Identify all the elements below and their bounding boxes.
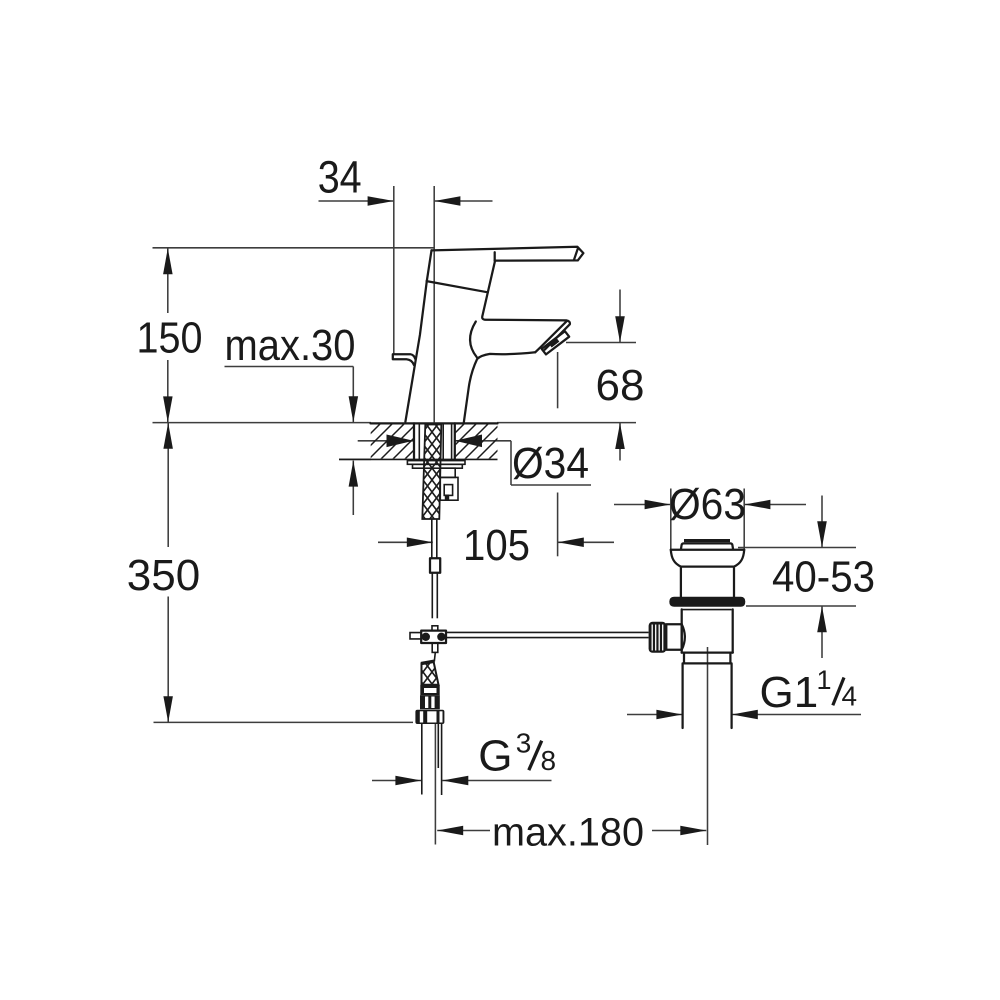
- svg-text:Ø34: Ø34: [512, 439, 589, 488]
- base mounting tab: [393, 354, 415, 365]
- linkage clamp bottom stub: [432, 643, 438, 652]
- dimension G3/8 arrows: [372, 780, 421, 782]
- top extension line (150 upper datum): [153, 247, 434, 249]
- drain neck: [680, 567, 682, 597]
- deck bottom line: [339, 458, 498, 460]
- drain plug cap: [684, 539, 730, 542]
- svg-text:3: 3: [516, 728, 532, 759]
- wire to hose: [434, 652, 435, 661]
- hose crimp collar: [420, 685, 439, 695]
- faucet neck right edge and spout top: [482, 261, 570, 350]
- hose tails: [421, 724, 423, 795]
- dimension 34 arrows: [319, 200, 394, 202]
- horizontal actuating rod: [446, 631, 649, 633]
- svg-text:G1: G1: [760, 668, 819, 717]
- deck top line: [371, 422, 498, 424]
- mounting flange and nut: [407, 461, 465, 465]
- svg-text:40-53: 40-53: [772, 552, 875, 601]
- max.30 lower arrow: [339, 458, 371, 460]
- groove ring: [683, 653, 685, 664]
- spout bottom edge and lower body right edge: [464, 352, 535, 422]
- svg-text:G: G: [478, 732, 512, 781]
- linkage clamp left stub: [410, 633, 421, 639]
- svg-text:350: 350: [127, 551, 200, 600]
- connection nut G3/8: [415, 710, 444, 724]
- deck hole left wall: [413, 423, 415, 459]
- pull rod upper: [431, 520, 433, 559]
- dimension 34 extension line right / pull-rod centerline: [433, 186, 435, 422]
- hex nipple: [420, 695, 440, 709]
- svg-text:34: 34: [318, 152, 362, 203]
- rod housing: [666, 624, 681, 650]
- svg-text:105: 105: [463, 521, 530, 570]
- dimension 150 vertical line: [167, 248, 169, 313]
- linkage clamp block: [421, 631, 446, 643]
- deck hatching left block: [371, 425, 414, 459]
- drain seal flange (black): [669, 597, 745, 607]
- dimension 105 arrows: [378, 541, 433, 543]
- deck-level extension line left: [153, 422, 372, 424]
- faucet centerline lower extension: [434, 724, 436, 845]
- dimension 68 top extension (spout outlet level): [566, 342, 636, 344]
- svg-text:150: 150: [137, 314, 203, 363]
- bottom extension line (hose end, 350 lower datum): [154, 721, 414, 723]
- pull rod lower: [431, 573, 433, 619]
- linkage clamp top stub: [432, 626, 438, 631]
- drain body bottom line: [682, 651, 733, 653]
- tailpipe G1 1/4: [681, 663, 683, 728]
- dimension G1 1/4 arrows: [627, 714, 682, 716]
- diameter 63 extension lines: [670, 489, 672, 550]
- dimension max.180 line: [437, 830, 490, 832]
- knurled adjuster knob: [649, 622, 667, 653]
- svg-text:8: 8: [541, 745, 557, 776]
- faucet body left edge: [405, 250, 431, 421]
- dimension 350 vertical line: [167, 423, 169, 547]
- dimension 40-53 vertical line: [821, 496, 823, 548]
- threaded shank (cross-hatched): [422, 425, 441, 520]
- diameter 34 arrows at deck hole: [358, 440, 414, 442]
- aerator: [542, 331, 570, 354]
- diameter 34 leader: [510, 441, 512, 485]
- dimension 40-53 extension lines: [738, 547, 856, 549]
- rod coupling: [430, 558, 440, 573]
- drain rim: [671, 549, 744, 551]
- pop-up rod guide fitting: [440, 468, 455, 477]
- spout outlet centerline extension: [557, 352, 559, 408]
- svg-text:max.30: max.30: [225, 321, 356, 370]
- svg-text:4: 4: [842, 681, 858, 712]
- faucet lever handle: [432, 247, 584, 261]
- drain centerline: [707, 647, 709, 845]
- deck-level extension line right (to 68 dim): [497, 422, 636, 424]
- drain flare: [671, 550, 681, 567]
- deck hole right wall: [454, 423, 456, 459]
- flare joint line: [681, 565, 734, 567]
- dimension 34 extension line left: [393, 186, 395, 354]
- drain body: [682, 609, 732, 611]
- max.30 leader line: [225, 366, 354, 368]
- deck hatching right block: [455, 425, 498, 459]
- svg-text:68: 68: [596, 361, 645, 410]
- spout tip face: [535, 321, 567, 352]
- shank tube lines: [418, 424, 420, 460]
- svg-text:max.180: max.180: [492, 810, 644, 854]
- svg-text:Ø63: Ø63: [669, 480, 746, 529]
- faucet handle joint line: [427, 281, 488, 292]
- diameter 63 arrows: [614, 504, 671, 506]
- dimension 68 vertical line: [619, 290, 621, 343]
- svg-text:1: 1: [817, 665, 832, 695]
- braided hose: [422, 661, 439, 685]
- body-spout contour curve: [470, 322, 477, 358]
